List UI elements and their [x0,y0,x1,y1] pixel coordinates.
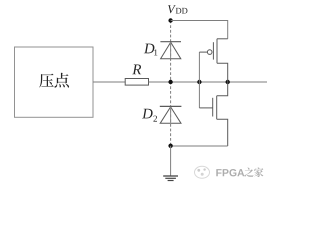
watermark text FPGA之家 [216,168,263,177]
diode D2 [160,106,182,123]
transistor PMOS Q1 [199,39,227,82]
dashed protection net wire [170,21,172,146]
node drain junction [226,80,230,84]
resistor R [125,79,148,86]
wire NMOS source to ground net [171,145,228,147]
wire pad to resistor [93,81,125,83]
label R [132,65,141,75]
transistor NMOS Q2 [199,82,227,146]
wire resistor to output [149,81,268,83]
node ground junction [168,144,172,148]
diode D1 [160,42,181,59]
label 压点 [39,73,69,88]
ground [163,146,178,181]
wire gate feed [198,52,200,108]
node VDD junction [168,18,172,22]
label D2 [142,109,157,122]
wire VDD to PMOS source [171,21,228,39]
pad box 压点 [15,47,94,117]
node input junction [168,80,172,84]
power VDD label [168,5,188,13]
node gate junction [197,80,201,84]
label D1 [144,44,158,56]
watermark logo [195,166,210,178]
